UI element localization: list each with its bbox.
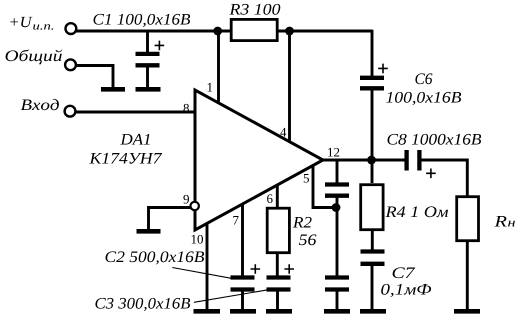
wire C1 top lead (146, 31, 149, 53)
ground C2 (230, 309, 256, 314)
capacitor C2 plates (231, 275, 255, 279)
label C6 (415, 73, 432, 84)
wire pin 9 to ground (149, 208, 191, 231)
wire C6 bottom to junction to R4 (371, 90, 374, 183)
leader line C3 label (194, 290, 268, 303)
junction pin4/top rail (285, 27, 294, 36)
plus sign C1 (155, 41, 165, 51)
resistor R2 (267, 208, 289, 253)
wire pin 1 (217, 31, 220, 104)
capacitor C6 plates (360, 76, 384, 80)
wire top rail right of R3 (278, 30, 372, 33)
leader line C2 label (172, 268, 232, 279)
label C3 value (95, 298, 190, 311)
op-amp DA1 triangle (195, 90, 323, 230)
wire Rn bottom lead (466, 240, 469, 310)
wire pin 7 (241, 205, 244, 277)
wire R2 bottom lead (276, 252, 279, 276)
junction pin1/top rail (213, 27, 222, 36)
label K174UN7 (89, 153, 162, 164)
wire pin 12 rail (321, 159, 405, 162)
wire C7 bottom lead (371, 266, 374, 311)
pin 9 inversion circle (191, 202, 199, 210)
wire top rail left (76, 30, 231, 33)
label DA1 (120, 134, 149, 145)
wire lower mid cap bottom lead (336, 290, 339, 310)
plus sign C8 (426, 169, 436, 179)
ground common terminal (101, 87, 125, 92)
wire C1 bottom lead (146, 67, 149, 89)
resistor R3 (231, 19, 277, 40)
terminal +U power (66, 23, 77, 34)
capacitor C1 plates (136, 52, 160, 56)
pin 1 (208, 83, 213, 92)
wire bootstrap cap bottom lead (336, 197, 339, 208)
junction C6/R4 on pin12 rail (367, 156, 376, 165)
label C7 (393, 267, 416, 278)
plus sign C2 (251, 264, 261, 274)
ground C7 (360, 309, 386, 314)
pin 5 (304, 174, 309, 183)
pin 7 (233, 216, 238, 225)
capacitor C7 plates (361, 249, 385, 253)
wire C2 bottom lead (241, 290, 244, 310)
label C7 value (381, 284, 431, 297)
junction pin5 node (332, 203, 341, 212)
ground Rn (454, 309, 480, 314)
label R2 value (299, 234, 317, 245)
resistor R4 (361, 185, 383, 230)
terminal common (65, 59, 76, 70)
plus sign C3 (284, 264, 294, 274)
wire pin 6 (276, 186, 279, 210)
label Общий (6, 50, 63, 65)
ground pin 10 (194, 309, 221, 314)
pin 4 (280, 128, 286, 137)
wire R4 to C7 (371, 229, 374, 250)
label C1 value (94, 14, 191, 27)
wire C8 to Rn (421, 160, 467, 197)
wire common terminal to ground (76, 66, 113, 89)
label Вход (21, 99, 59, 110)
capacitor pins 12-5 (unlabeled) plates (325, 182, 349, 186)
pin 8 (184, 104, 190, 113)
wire pin5 node down to lower cap (336, 208, 339, 277)
label +Uи.п. (10, 17, 53, 30)
wire C3 bottom lead (276, 290, 279, 310)
wire C6 top lead (371, 30, 374, 76)
ground mid capacitor (324, 309, 350, 314)
resistor Rn load (457, 197, 479, 241)
label R4 value (385, 206, 448, 217)
label C2 value (106, 251, 205, 264)
label Rn load (494, 216, 515, 227)
wire pin 10 (206, 224, 209, 311)
label C8 value (388, 134, 482, 145)
label R3 value (229, 4, 280, 15)
label C6 value (386, 92, 461, 105)
pin 9 (183, 195, 189, 204)
ground pin 9 (137, 229, 161, 234)
ground C3 (266, 309, 292, 314)
ground C1 (136, 87, 161, 92)
wire bootstrap cap top lead (336, 160, 339, 183)
pin 12 (328, 148, 339, 157)
wire input to pin 8 (76, 111, 196, 114)
capacitor C8 plates (horizontal) (404, 150, 408, 171)
pin 10 (192, 235, 203, 244)
capacitor C3 plates (267, 275, 291, 279)
plus sign C6 (378, 64, 388, 74)
terminal input (65, 106, 76, 117)
wire pin 5 (313, 165, 337, 208)
capacitor pin5-ground (unlabeled) plates (325, 275, 349, 279)
pin 6 (267, 194, 273, 203)
label R2 (293, 217, 312, 228)
wire pin 4 (288, 31, 291, 142)
